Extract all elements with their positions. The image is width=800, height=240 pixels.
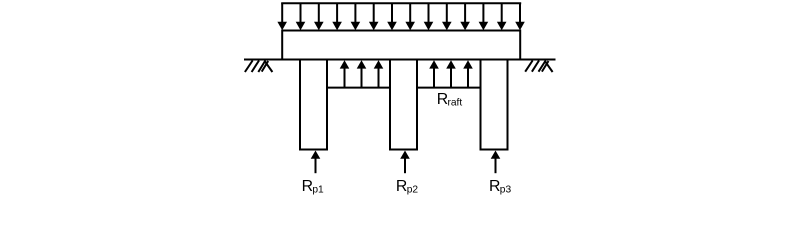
pile 3 (481, 60, 508, 150)
raft contact line 2 (416, 87, 482, 89)
raft reaction arrow 2b (446, 60, 456, 87)
svg-text:p2: p2 (407, 184, 419, 195)
load arrow 1 (277, 3, 287, 30)
left hatch stroke 1 (245, 61, 253, 73)
raft reaction arrow 2c (463, 60, 473, 87)
pile reaction arrow 3 (491, 151, 501, 174)
right hatch stroke 1 (525, 61, 532, 72)
distributed load line (281, 2, 521, 4)
right hatch short stroke (542, 61, 549, 72)
load arrow 3 (314, 3, 324, 30)
load arrow 9 (424, 3, 434, 30)
raft reaction arrow 1a (340, 60, 350, 87)
svg-text:p3: p3 (500, 184, 512, 195)
load arrow 4 (332, 3, 342, 30)
right hatch back stroke (545, 61, 553, 72)
left hatch back stroke (265, 61, 273, 72)
right hatch stroke 2 (532, 61, 539, 72)
load arrow 2 (296, 3, 306, 30)
svg-text:R: R (302, 178, 313, 195)
ground line (244, 59, 556, 61)
pile 1 (300, 60, 327, 150)
load arrow 8 (405, 3, 415, 30)
load arrow 5 (351, 3, 361, 30)
raft contact line 1 (326, 87, 391, 89)
pile 2 (390, 60, 417, 150)
pile reaction arrow 1 (311, 151, 321, 174)
left hatch stroke 3 (258, 61, 265, 73)
load arrow 14 (515, 3, 525, 30)
svg-text:R: R (437, 91, 448, 108)
svg-text:raft: raft (448, 98, 463, 109)
load arrow 11 (460, 3, 470, 30)
left hatch stroke 2 (252, 61, 259, 73)
pile reaction arrow 2 (400, 151, 410, 174)
raft slab (282, 31, 520, 60)
svg-text:R: R (396, 178, 407, 195)
svg-text:p1: p1 (312, 184, 324, 195)
label Rraft (437, 91, 463, 109)
load arrow 12 (479, 3, 489, 30)
svg-text:R: R (489, 178, 500, 195)
load arrow 10 (442, 3, 452, 30)
raft reaction arrow 1c (374, 60, 384, 87)
label Rp2 (396, 178, 418, 196)
raft reaction arrow 2a (429, 60, 439, 87)
load arrow 7 (387, 3, 397, 30)
load arrow 6 (369, 3, 379, 30)
right hatch stroke 3 (539, 61, 546, 72)
label Rp3 (489, 178, 511, 196)
raft reaction arrow 1b (357, 60, 367, 87)
label Rp1 (302, 178, 324, 196)
load arrow 13 (497, 3, 507, 30)
left hatch short stroke (262, 61, 269, 72)
